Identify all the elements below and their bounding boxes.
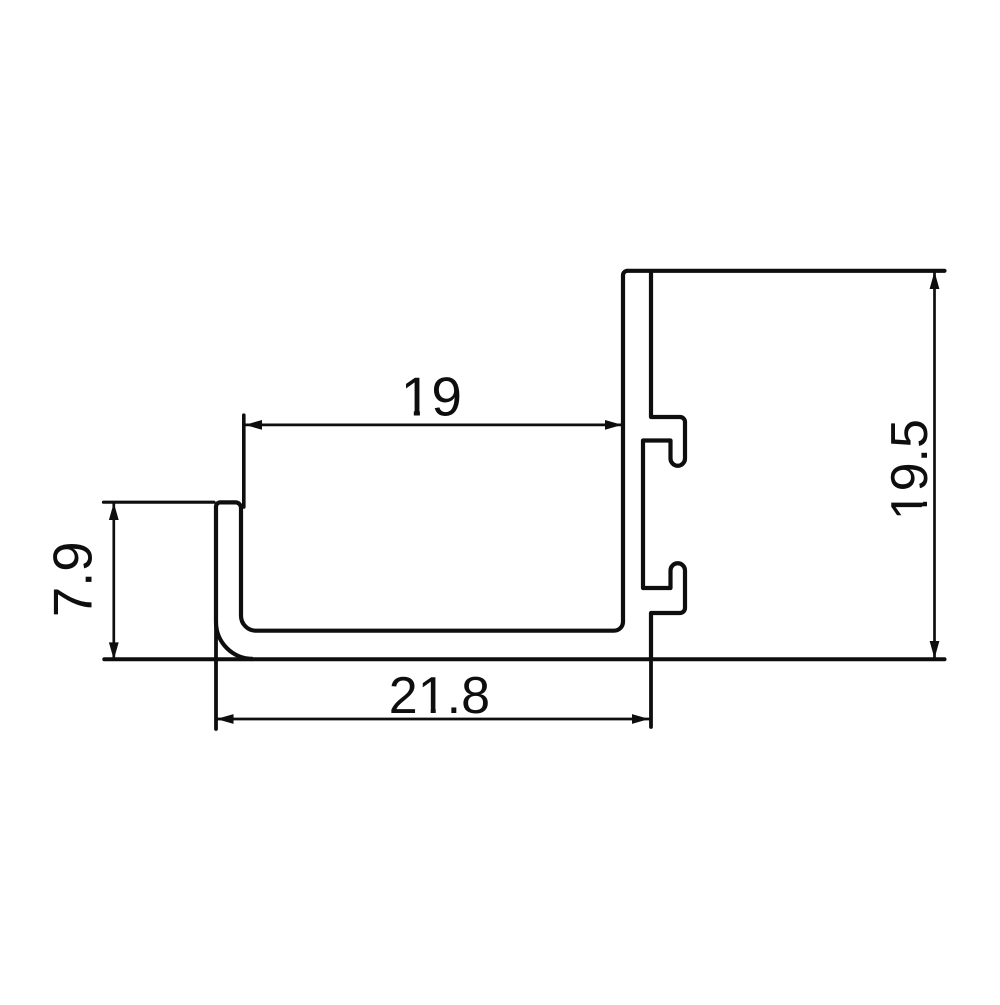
- arrow 19 right: [605, 420, 622, 430]
- svg-text:7.9: 7.9: [43, 541, 104, 617]
- profile bottom edge with left and right extension lines: [104, 657, 944, 661]
- svg-text:19.5: 19.5: [881, 419, 939, 520]
- svg-text:19: 19: [401, 366, 462, 428]
- dimension line 19: [244, 424, 622, 427]
- arrow 19.5 top: [930, 272, 940, 290]
- arrow 21.8 left: [216, 714, 233, 724]
- extension line left (21.8 left / profile left face continuation): [214, 508, 218, 729]
- profile top edge with right extension line: [628, 269, 945, 273]
- extension line for dim 7.9 (top, at lip top): [104, 501, 215, 504]
- arrow 21.8 right: [632, 714, 649, 724]
- arrow 7.9 bottom: [109, 642, 119, 659]
- white masks to remove Liberation '1' foot serif (label 19.5, rotated): [922, 493, 928, 502]
- profile left side: bar left face, channel floor, lip: [216, 271, 628, 659]
- arrow 7.9 top: [109, 503, 119, 520]
- dimension line 7.9: [112, 502, 115, 660]
- dimension line 21.8: [216, 718, 650, 721]
- white masks to remove Liberation '1' foot serif (label 21.8): [420, 708, 431, 715]
- svg-text:21.8: 21.8: [389, 667, 490, 725]
- profile right side with two hooks: [643, 271, 685, 659]
- arrow 19.5 bottom: [930, 641, 940, 659]
- dimension line 19.5: [933, 271, 936, 659]
- extension line for dim 19 (left, at lip inner face): [242, 415, 246, 507]
- white masks to remove Liberation '1' foot serif (label 19): [403, 411, 414, 418]
- extension line right of bar (21.8 right): [649, 615, 653, 727]
- arrow 19 left: [245, 420, 262, 430]
